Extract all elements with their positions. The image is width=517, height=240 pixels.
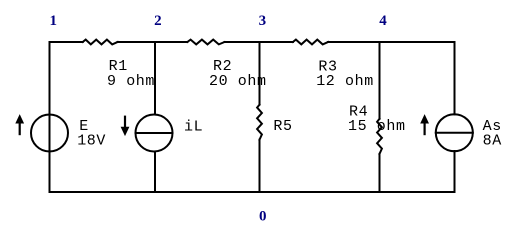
source E circle: [31, 115, 68, 152]
wire top rail node1 to R1: [50, 41, 83, 43]
wire node2 branch lower: [154, 152, 156, 193]
resistor R3 zigzag: [293, 40, 328, 45]
resistor R5 zigzag: [257, 105, 262, 140]
wire right branch lower: [454, 151, 456, 192]
source E arrow up: [16, 115, 23, 135]
svg-text:2: 2: [154, 13, 162, 29]
wire node4 branch lower: [379, 154, 381, 192]
source As arrow up: [421, 115, 428, 135]
source As circle: [436, 114, 473, 151]
svg-text:12 ohm: 12 ohm: [316, 73, 374, 90]
resistor R1 zigzag: [83, 40, 118, 45]
svg-text:4: 4: [379, 13, 387, 29]
wire top rail R2 to R3: [225, 41, 293, 43]
wire node3 branch lower: [259, 140, 261, 192]
wire node4 branch upper: [379, 42, 381, 119]
svg-text:3: 3: [259, 13, 267, 29]
source iL circle: [136, 115, 173, 152]
source iL chord: [136, 132, 173, 134]
wire left branch through E: [49, 42, 51, 192]
svg-text:R5: R5: [273, 118, 292, 135]
svg-text:0: 0: [259, 209, 267, 225]
resistor R2 zigzag: [187, 40, 224, 45]
source iL arrow down: [121, 116, 128, 135]
wire bottom rail: [50, 191, 455, 193]
resistor R4 zigzag: [377, 119, 382, 154]
svg-text:iL: iL: [184, 118, 203, 135]
svg-text:9 ohm: 9 ohm: [107, 73, 155, 90]
svg-text:18V: 18V: [77, 132, 106, 149]
wire right branch upper: [454, 42, 456, 114]
source As chord: [436, 132, 473, 134]
wire node2 branch upper: [154, 42, 156, 115]
wire top rail R3 to right edge: [328, 41, 454, 43]
wire node3 branch upper: [259, 42, 261, 105]
svg-text:20 ohm: 20 ohm: [209, 73, 267, 90]
wire top rail R1 to R2: [118, 41, 188, 43]
svg-text:8A: 8A: [483, 132, 502, 149]
svg-text:1: 1: [49, 13, 57, 29]
